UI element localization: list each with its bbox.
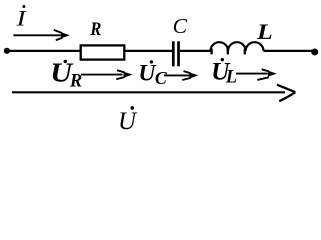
dot over U of U̇R xyxy=(64,60,67,63)
wire: inductor L to node B xyxy=(264,50,315,52)
svg-text:R: R xyxy=(89,18,101,39)
wire: resistor R to capacitor C xyxy=(124,50,172,52)
voltage arrow for U̇R xyxy=(81,74,123,76)
current direction arrow (İ) xyxy=(13,34,62,36)
voltage arrow for U̇L xyxy=(236,73,268,75)
voltage arrow for U̇C xyxy=(164,74,191,76)
resistor R (rectangle body) xyxy=(81,45,125,59)
inductor junction tick 3 xyxy=(244,49,246,55)
wire: node A to resistor R xyxy=(7,50,81,52)
dot over U xyxy=(131,106,135,110)
svg-text:C: C xyxy=(173,14,188,38)
wire: capacitor C to inductor L xyxy=(180,50,211,52)
inductor junction tick 2 xyxy=(227,49,229,55)
capacitor C (left plate) xyxy=(172,41,175,66)
inductor L (three coil arcs) xyxy=(211,42,264,51)
inductor junction tick 1 xyxy=(210,49,212,55)
node A (left terminal dot) xyxy=(4,48,10,54)
capacitor C (right plate) xyxy=(177,41,180,66)
svg-text:L: L xyxy=(225,68,237,88)
svg-text:C: C xyxy=(155,68,168,88)
dot over U of U̇L xyxy=(221,58,224,61)
svg-text:L: L xyxy=(256,21,273,45)
dot over U of U̇C xyxy=(150,60,153,63)
total voltage arrow U̇ (bottom) xyxy=(12,91,285,93)
dot over I xyxy=(22,5,25,8)
svg-text:U: U xyxy=(138,60,156,86)
node B (right terminal dot) xyxy=(311,48,318,55)
svg-text:U: U xyxy=(118,108,138,135)
svg-text:R: R xyxy=(69,71,82,91)
